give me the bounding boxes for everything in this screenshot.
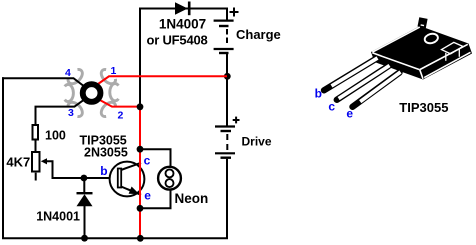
node dot collector/neon [137, 146, 144, 153]
toroid transformer T1 windings [65, 68, 119, 118]
transistor base bar [118, 169, 121, 188]
toroid core ring [83, 84, 101, 102]
package mounting hole [424, 32, 439, 44]
package notch [442, 42, 463, 60]
wire pin 2 red [98, 99, 140, 107]
node dot emitter/rail [137, 235, 144, 242]
svg-text:4K7: 4K7 [6, 155, 30, 170]
svg-text:2N3055: 2N3055 [84, 145, 128, 159]
svg-text:e: e [144, 189, 151, 203]
node dot diode to rail [81, 235, 88, 242]
svg-text:c: c [144, 154, 151, 168]
node dot base/diode junction [81, 175, 88, 182]
package lead b [324, 58, 378, 90]
svg-text:1N4001: 1N4001 [36, 210, 80, 224]
svg-text:Neon: Neon [175, 191, 209, 206]
svg-text:e: e [346, 107, 353, 121]
resistor R1 100 [33, 125, 39, 140]
neon lamp NE1 [158, 167, 181, 190]
svg-text:c: c [328, 100, 335, 114]
wire wiper to base [45, 161, 117, 178]
diode D1 1N4007 [175, 2, 189, 16]
svg-text:1: 1 [111, 65, 117, 77]
svg-text:4: 4 [65, 67, 71, 79]
diode D2 1N4001 [77, 178, 93, 239]
package lead e [353, 72, 401, 107]
svg-text:1N4007: 1N4007 [159, 16, 206, 31]
wire resistor to pot [35, 141, 37, 153]
TIP3055 package body [371, 17, 472, 79]
wire pin 1 red [98, 76, 227, 84]
svg-text:100: 100 [45, 129, 66, 143]
potentiometer VR1 4K7 [32, 152, 40, 172]
wire red vertical collector/emitter [139, 106, 141, 238]
wire bottom rail [2, 237, 228, 239]
package lead c [337, 66, 390, 100]
svg-text:b: b [315, 86, 322, 100]
svg-text:Charge: Charge [236, 27, 281, 42]
svg-text:2: 2 [118, 110, 124, 122]
wire pin 3 black [36, 99, 86, 125]
transistor Q1 body [110, 162, 145, 197]
svg-text:Drive: Drive [242, 134, 272, 148]
node dot emitter/neon [137, 205, 144, 212]
battery B1 Charge [214, 8, 239, 77]
wire top rail and left drop to collector node [140, 9, 228, 107]
neon lamp leads [140, 149, 171, 167]
package edge highlights [372, 27, 470, 79]
svg-text:or UF5408: or UF5408 [146, 32, 207, 47]
svg-text:b: b [100, 164, 107, 178]
transistor emitter arrow [129, 187, 140, 195]
node dot pin2/top [137, 103, 144, 110]
node dot charge/drive junction [224, 73, 231, 80]
svg-text:3: 3 [68, 107, 74, 119]
svg-text:TIP3055: TIP3055 [399, 100, 448, 115]
wire pin 4 black [2, 78, 85, 87]
transistor emitter line [121, 187, 141, 195]
battery B2 Drive [215, 76, 240, 238]
pot bottom stub [35, 173, 37, 181]
wire left rail [2, 77, 4, 238]
transistor collector line [121, 163, 141, 170]
pot wiper arrow [41, 158, 47, 164]
